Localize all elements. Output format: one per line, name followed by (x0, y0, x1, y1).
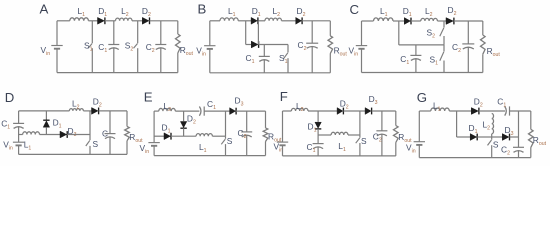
wire (175, 110, 199, 112)
capacitor C1 (A) (98, 21, 119, 73)
wire (302, 20, 330, 22)
diode D1 (B) (251, 6, 261, 24)
wire (362, 72, 483, 74)
svg-text:C: C (350, 2, 360, 17)
inductor L2 (C) (421, 6, 438, 21)
inductor L2 (A) (116, 6, 133, 21)
switch S (E) (221, 111, 233, 156)
wire (210, 72, 330, 74)
svg-text:Vin: Vin (406, 143, 416, 155)
svg-text:L1: L1 (338, 141, 346, 153)
svg-text:C2: C2 (238, 128, 247, 140)
wire (83, 110, 91, 112)
voltage source Vin (F) (274, 142, 289, 154)
svg-text:D3: D3 (369, 94, 378, 106)
svg-text:D3: D3 (68, 126, 77, 138)
svg-text:S: S (93, 139, 99, 149)
resistor Rout (G) (529, 111, 547, 158)
capacitor C2 (E) (238, 111, 253, 156)
svg-text:D2: D2 (340, 98, 349, 110)
wire (282, 145, 284, 156)
wire (154, 155, 265, 157)
capacitor C1 (F) (307, 135, 324, 156)
wire (477, 136, 492, 138)
svg-text:L2: L2 (483, 119, 491, 131)
inductor L1 (G) (431, 101, 450, 113)
svg-text:L1: L1 (380, 6, 388, 18)
wire (236, 110, 265, 112)
wire (57, 20, 70, 22)
diode D1 (E) (162, 122, 172, 139)
wire (88, 20, 97, 22)
wire (150, 20, 178, 22)
switch S1 (B) (279, 45, 288, 73)
wire (209, 21, 211, 46)
inductor L2 (F) (291, 101, 308, 113)
svg-text:S1: S1 (430, 54, 439, 66)
svg-text:S1: S1 (84, 41, 93, 53)
svg-text:L2: L2 (425, 6, 433, 18)
wire (56, 49, 58, 73)
svg-text:S: S (493, 140, 499, 150)
diode D1 (A) (98, 6, 108, 24)
wire (318, 134, 331, 136)
inductor L2 (D) (69, 99, 83, 111)
wire (19, 110, 70, 112)
wire (153, 146, 155, 156)
circuit label F (280, 89, 288, 104)
diode D2 (F) (337, 98, 349, 114)
voltage source Vin (G) (406, 142, 425, 155)
wire (154, 110, 159, 112)
wire (283, 155, 396, 157)
svg-text:L1: L1 (228, 6, 236, 18)
svg-text:L1: L1 (199, 142, 207, 154)
wire (510, 136, 519, 138)
svg-text:Rout: Rout (533, 135, 547, 147)
diode D3 (F) (365, 94, 378, 114)
wire (411, 20, 421, 22)
svg-text:Vin: Vin (196, 45, 206, 57)
wire (57, 72, 178, 74)
svg-text:B: B (198, 2, 207, 17)
node wire D1 cathode to lower row (B) (257, 21, 259, 45)
svg-text:C1: C1 (98, 42, 107, 54)
svg-text:L2: L2 (296, 101, 304, 113)
diode D3 lower (B) (251, 41, 258, 48)
svg-text:S2: S2 (427, 28, 436, 40)
circuit label B (198, 2, 207, 17)
capacitor C2 (F) (373, 111, 388, 156)
wire (393, 20, 404, 22)
capacitor C1 (D) (1, 111, 24, 142)
diode D2 (D) (92, 97, 102, 115)
diode D3 (E) (230, 96, 244, 115)
svg-text:C2: C2 (146, 42, 155, 54)
resistor Rout (B) (328, 21, 347, 73)
svg-text:L1: L1 (78, 6, 86, 18)
voltage source Vin (E) (140, 143, 160, 155)
svg-text:L1: L1 (24, 140, 32, 152)
diode D1 (G) (469, 123, 478, 140)
wire (212, 135, 225, 137)
capacitor C2 (C) (452, 21, 474, 73)
wire (492, 136, 503, 138)
capacitor C1 series (G) (497, 97, 509, 116)
svg-text:C1: C1 (400, 54, 409, 66)
diode D2 (E) (180, 111, 196, 136)
wire (419, 157, 531, 159)
svg-text:Vin: Vin (41, 45, 51, 57)
wire (449, 110, 471, 112)
svg-text:E: E (144, 90, 153, 105)
capacitor C1 (B) (246, 45, 270, 73)
wire (343, 110, 365, 112)
svg-text:C1: C1 (246, 53, 255, 65)
svg-text:F: F (280, 89, 288, 104)
voltage source Vin (A) (41, 45, 63, 57)
svg-text:S2: S2 (125, 41, 134, 53)
inductor L2 (B) (265, 6, 282, 21)
wire (245, 21, 247, 45)
svg-text:Vin: Vin (349, 45, 359, 57)
svg-text:Rout: Rout (180, 45, 194, 57)
resistor Rout (F) (394, 111, 413, 156)
svg-text:L2: L2 (121, 6, 129, 18)
diode D1 (D) (43, 111, 61, 135)
wire (210, 20, 220, 22)
inductor L1 (D) (23, 132, 40, 152)
diode D2 (G) (471, 97, 483, 115)
diode D2 (C) (446, 5, 457, 24)
wire (132, 20, 142, 22)
wire (479, 110, 505, 112)
wire (258, 20, 265, 22)
inductor L1 (C) (374, 6, 394, 21)
switch S (G) (488, 137, 499, 158)
svg-text:C: C (102, 129, 108, 139)
svg-text:D1: D1 (252, 6, 261, 18)
diode D2 (B) (296, 6, 306, 24)
svg-text:C2: C2 (501, 144, 510, 156)
wire (282, 20, 296, 22)
inductor L1 (B) (220, 6, 238, 21)
svg-text:D1: D1 (162, 122, 171, 134)
svg-text:Vin: Vin (3, 140, 13, 152)
wire (259, 44, 288, 46)
svg-text:L1: L1 (433, 101, 441, 113)
svg-text:D: D (5, 90, 15, 105)
wire (19, 134, 23, 136)
svg-text:A: A (40, 1, 49, 16)
wire (437, 20, 446, 22)
circuit label C (350, 2, 360, 17)
resistor Rout (D) (125, 111, 143, 154)
svg-text:C1: C1 (1, 119, 10, 131)
wire (418, 111, 420, 142)
capacitor C1 series (E) (199, 99, 216, 116)
wire (418, 145, 420, 158)
wire (105, 20, 116, 22)
svg-text:S: S (227, 136, 233, 146)
wire (419, 110, 431, 112)
wire (457, 136, 471, 138)
switch S2 (C) (427, 21, 445, 45)
wire (18, 145, 20, 154)
wire (361, 21, 363, 46)
svg-text:D2: D2 (93, 97, 102, 109)
wire (238, 20, 251, 22)
svg-text:Vin: Vin (274, 142, 284, 154)
svg-text:C2: C2 (298, 40, 307, 52)
wire (153, 111, 155, 143)
svg-text:Rout: Rout (334, 45, 348, 57)
svg-text:C1: C1 (497, 97, 506, 109)
wire (348, 134, 360, 136)
svg-text:L2: L2 (273, 6, 281, 18)
svg-text:Vin: Vin (140, 143, 150, 155)
wire (510, 110, 531, 112)
wire (67, 134, 90, 136)
voltage source Vin (B) (196, 45, 215, 57)
switch S2 (A) (125, 21, 138, 73)
svg-text:C1: C1 (207, 99, 216, 111)
svg-text:D2: D2 (297, 6, 306, 18)
svg-text:D1: D1 (403, 6, 412, 18)
wire (171, 135, 196, 137)
switch S1 (C) (430, 45, 445, 73)
capacitor C2 (A) (146, 21, 167, 73)
capacitor C (D) (102, 111, 116, 154)
circuit label E (144, 90, 153, 105)
diode D1 (F) (308, 111, 322, 135)
svg-text:D2: D2 (187, 114, 196, 126)
voltage source Vin (D) (3, 140, 24, 152)
wire (204, 110, 229, 112)
wire (454, 20, 483, 22)
wire (40, 134, 61, 136)
svg-text:C2: C2 (452, 42, 461, 54)
wire (19, 153, 127, 155)
diode D3 (G) (502, 125, 513, 140)
wire (283, 110, 292, 112)
wire (372, 110, 396, 112)
wire (154, 135, 164, 137)
capacitor C2 (B) (298, 21, 319, 73)
svg-text:D2: D2 (448, 5, 457, 17)
svg-text:L2: L2 (163, 101, 171, 113)
wire (362, 20, 374, 22)
svg-text:D2: D2 (142, 6, 151, 18)
inductor L1 (E) (196, 134, 212, 154)
wire (308, 110, 337, 112)
circuit label A (40, 1, 49, 16)
svg-text:D1: D1 (469, 123, 478, 135)
wire node after L1 down (C) (398, 21, 400, 45)
wire (209, 49, 211, 73)
svg-text:C2: C2 (373, 131, 382, 143)
svg-text:G: G (417, 90, 427, 105)
inductor L1 (A) (70, 6, 89, 21)
inner wire (C) (399, 44, 444, 46)
circuit label G (417, 90, 427, 105)
diode D3 (D) (60, 126, 77, 138)
inductor L2 (E) (159, 101, 176, 113)
svg-text:D1: D1 (53, 117, 62, 129)
svg-text:D1: D1 (98, 6, 107, 18)
capacitor C2 (G) (501, 111, 524, 158)
voltage source Vin (C) (349, 45, 368, 57)
inductor L1 (F) (331, 132, 348, 153)
capacitor C1 (C) (400, 45, 421, 73)
resistor Rout (E) (263, 111, 282, 156)
switch S (D) (86, 111, 99, 154)
switch S (F) (356, 111, 367, 156)
resistor Rout (C) (481, 21, 501, 73)
inductor L2 vertical (G) (483, 114, 494, 138)
switch S1 (A) (84, 21, 93, 73)
wire node after L1 down (G) (456, 111, 458, 137)
circuit label D (5, 90, 15, 105)
diode D1 (C) (403, 6, 412, 25)
svg-text:S: S (361, 136, 367, 146)
svg-text:D2: D2 (474, 97, 483, 109)
svg-text:D3: D3 (235, 96, 244, 108)
svg-text:Rout: Rout (487, 46, 501, 58)
wire (282, 111, 284, 142)
wire (246, 44, 252, 46)
wire (56, 21, 58, 46)
wire (99, 110, 127, 112)
wire (361, 49, 363, 73)
resistor Rout (A) (176, 21, 194, 73)
diode D2 (A) (142, 6, 151, 24)
